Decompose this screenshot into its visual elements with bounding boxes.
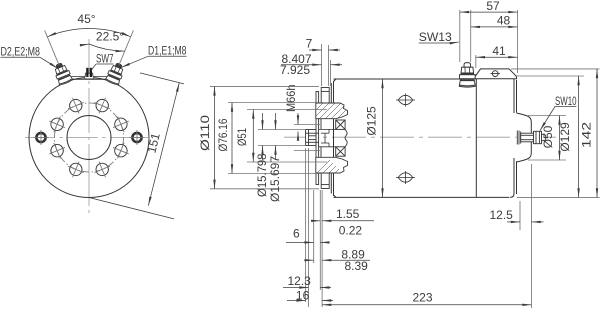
dim 8.89 / 8.39 — [305, 259, 314, 261]
dim 41 — [476, 56, 518, 58]
dim D50 — [559, 116, 561, 161]
dim 12.5 — [507, 221, 520, 223]
dim 57 — [460, 11, 518, 13]
ext cap top for D129 — [515, 75, 585, 77]
ext lines 51 — [247, 109, 327, 111]
svg-text:Ø76.16: Ø76.16 — [216, 118, 230, 151]
svg-text:16: 16 — [296, 288, 310, 302]
screw symbol lower on body — [396, 171, 415, 184]
side mount hole left — [34, 130, 49, 145]
svg-text:57: 57 — [486, 0, 500, 13]
svg-text:Ø125: Ø125 — [365, 106, 379, 136]
8 bolt holes — [46, 94, 132, 180]
45 deg arc dimension — [47, 29, 130, 37]
svg-text:7.925: 7.925 — [280, 63, 310, 77]
end cap housing — [476, 77, 516, 198]
ext lines 76.16 — [228, 102, 323, 104]
svg-text:41: 41 — [492, 44, 506, 58]
dim D51 — [252, 110, 254, 163]
ext boss top/bottom for D50 — [528, 115, 566, 117]
svg-text:SW7: SW7 — [96, 52, 114, 66]
svg-text:D1,E1;M8: D1,E1;M8 — [148, 44, 187, 58]
screw symbol upper on body — [396, 94, 415, 107]
dim 223 — [322, 304, 531, 306]
dim M66h — [297, 113, 299, 125]
svg-text:22.5°: 22.5° — [96, 30, 124, 44]
upper bearing box with X — [336, 120, 345, 129]
ext line stud right edge — [470, 10, 472, 62]
svg-text:48: 48 — [497, 14, 511, 28]
svg-text:142: 142 — [580, 122, 594, 148]
outer flange circle — [29, 78, 149, 198]
center bore circle — [67, 116, 111, 160]
dim 7 (top left) — [322, 44, 331, 86]
dim 8.407 / 7.925 — [281, 64, 322, 66]
svg-text:M66h: M66h — [284, 85, 298, 113]
svg-text:Ø110: Ø110 — [198, 115, 212, 151]
main centerline — [284, 136, 556, 138]
bolt circle (dash-dot) — [55, 103, 124, 172]
svg-text:0.22: 0.22 — [339, 224, 363, 238]
dim D76.16 — [231, 103, 233, 174]
svg-text:SW10: SW10 — [555, 94, 577, 108]
terminal stud D1,E1 (right, +22.5deg) — [105, 61, 126, 85]
dim 142 — [596, 69, 598, 198]
lower bearing box with X — [336, 147, 345, 156]
22.5 deg arc dimension — [81, 44, 125, 51]
svg-text:Ø51: Ø51 — [235, 128, 249, 146]
dimension 151 diagonal — [89, 73, 184, 219]
terminal stud D2,E2 (left, -22.5deg) — [52, 61, 73, 85]
rear boss on cap face — [517, 113, 532, 162]
dim D129 — [578, 76, 580, 197]
svg-text:223: 223 — [412, 290, 432, 304]
spline shaft — [306, 130, 319, 146]
svg-text:1.55: 1.55 — [336, 207, 360, 221]
dim 6 — [286, 241, 314, 243]
vertical centerline — [88, 39, 90, 213]
svg-text:Ø15.798: Ø15.798 — [255, 153, 269, 197]
ext bottom shared — [517, 196, 600, 198]
side mount hole right — [130, 130, 145, 145]
stud axis extension lines — [45, 30, 134, 65]
ext line cap top right — [517, 10, 519, 73]
upper casting block (hatched) — [308, 90, 354, 136]
dim 12.3 — [283, 287, 309, 289]
ext line nut right edge — [475, 55, 477, 68]
svg-text:SW13: SW13 — [419, 30, 452, 44]
lower lip tab — [321, 173, 329, 189]
svg-text:12.5: 12.5 — [490, 208, 514, 222]
ext cap face — [519, 201, 521, 230]
lower casting block (hatched) — [308, 157, 354, 206]
upper lip tab — [321, 88, 329, 104]
dim 16 — [287, 300, 306, 302]
svg-text:Ø129: Ø129 — [558, 122, 572, 152]
wavy mid profile — [345, 129, 347, 146]
dim D15.697 — [275, 113, 277, 130]
svg-text:Ø50: Ø50 — [541, 125, 555, 148]
hub center lines — [319, 129, 336, 146]
terminal plate on cap — [474, 69, 517, 79]
dim D110 — [214, 86, 216, 188]
dim D125 inside body — [382, 79, 384, 197]
dim D15.798 — [262, 113, 264, 130]
svg-text:Ø15.697: Ø15.697 — [268, 156, 282, 202]
ext plate top for 142 — [511, 68, 600, 70]
ext line stud left edge — [459, 10, 461, 62]
horizontal centerline — [25, 137, 153, 139]
svg-text:D2,E2;M8: D2,E2;M8 — [1, 45, 41, 59]
SW10 bolt — [517, 131, 546, 145]
svg-text:6: 6 — [293, 227, 300, 241]
svg-text:12.3: 12.3 — [288, 274, 312, 288]
svg-text:45°: 45° — [77, 12, 95, 26]
ext boss face long — [531, 164, 533, 308]
ext lines M66 — [294, 124, 320, 126]
ext lines shaft dia — [258, 129, 306, 131]
svg-text:8.39: 8.39 — [345, 259, 369, 273]
terminal stud SW13 on body — [459, 63, 475, 87]
slotted screw on plate — [491, 71, 500, 77]
main body cylinder — [331, 79, 509, 197]
ext lines flange OD (110) — [210, 85, 319, 87]
dim 1.55 / 0.22 — [312, 220, 320, 222]
drive end flange disc — [316, 92, 321, 185]
svg-text:7: 7 — [306, 37, 313, 51]
top flat plate — [60, 78, 118, 80]
dim 48 — [471, 26, 518, 28]
SW7 small stud top center — [85, 68, 94, 79]
